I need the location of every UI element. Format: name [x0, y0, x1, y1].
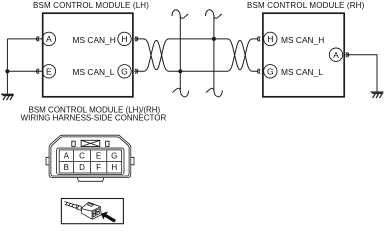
svg-text:MS CAN_H: MS CAN_H: [73, 35, 116, 45]
connector top latch box with X: [81, 140, 100, 146]
branch wire vertical 1: [179, 16, 181, 90]
connector chevrons pin G (RH): [257, 69, 260, 74]
connector left side lug: [46, 157, 49, 165]
svg-text:F: F: [96, 163, 101, 172]
connector chevrons pin A (LH): [36, 37, 39, 42]
pin H (RH): [264, 32, 277, 45]
wire MS CAN_H twisted pair (top): [134, 39, 257, 70]
break squiggle bottom of branch 1: [172, 88, 188, 97]
break squiggle bottom of branch 2: [206, 88, 222, 97]
pin H (LH): [118, 32, 131, 45]
break squiggle top of branch 2: [206, 10, 222, 19]
pin G (RH): [264, 65, 277, 78]
junction dot left ground: [5, 69, 9, 73]
ground G2 (right): [371, 92, 384, 98]
break squiggle top of branch 1: [172, 10, 188, 19]
connector pin grid: [59, 150, 121, 173]
legend cable: [64, 202, 81, 211]
branch wire vertical 2: [213, 16, 215, 90]
legend connector 3d body: [81, 202, 101, 219]
svg-text:C: C: [79, 151, 85, 160]
BSM control module (RH) box U2: [263, 13, 344, 97]
wire ground-to-A (LH): [7, 38, 42, 40]
pin G (LH): [118, 65, 131, 78]
wire ground-to-E (LH): [7, 70, 42, 72]
connector top small tab 2: [106, 141, 109, 146]
connector chevrons pin G (LH): [135, 69, 138, 74]
pin E (LH): [42, 65, 55, 78]
junction dot branch1 on CAN_L: [178, 69, 182, 73]
connector chevrons pin H (RH): [257, 37, 260, 42]
wire MS CAN_L twisted pair (bottom): [134, 40, 257, 71]
svg-text:G: G: [267, 67, 274, 77]
svg-text:MS CAN_L: MS CAN_L: [73, 67, 115, 77]
svg-text:H: H: [267, 34, 273, 44]
legend direction arrow: [101, 211, 116, 222]
svg-text:D: D: [79, 163, 85, 172]
svg-text:MS CAN_L: MS CAN_L: [281, 67, 323, 77]
connector housing outer outline: [49, 135, 131, 177]
svg-text:WIRING HARNESS-SIDE CONNECTOR: WIRING HARNESS-SIDE CONNECTOR: [21, 114, 167, 123]
junction dot branch2 on CAN_H: [212, 37, 216, 41]
svg-text:A: A: [46, 34, 52, 44]
pin A (LH): [42, 32, 55, 45]
svg-text:BSM CONTROL MODULE (RH): BSM CONTROL MODULE (RH): [247, 1, 365, 10]
svg-text:BSM CONTROL MODULE (LH): BSM CONTROL MODULE (LH): [33, 1, 149, 10]
connector chevrons pin A (RH): [346, 52, 349, 57]
BSM control module (LH) box U1: [43, 13, 133, 97]
svg-text:G: G: [121, 67, 128, 77]
legend icon box: [61, 199, 123, 224]
svg-text:E: E: [96, 151, 101, 160]
svg-text:H: H: [121, 34, 127, 44]
connector chevrons pin E (LH): [36, 69, 39, 74]
svg-text:H: H: [111, 163, 117, 172]
svg-text:A: A: [333, 50, 339, 60]
wire A (RH) to ground: [344, 55, 377, 92]
ground G1 (left): [1, 94, 14, 100]
svg-text:A: A: [64, 151, 70, 160]
wire left ground vertical: [6, 39, 8, 94]
connector pin area box: [57, 148, 124, 174]
connector housing inner outline: [51, 137, 129, 176]
connector right side lug: [131, 157, 134, 165]
svg-text:MS CAN_H: MS CAN_H: [281, 35, 324, 45]
connector bottom tab: [77, 178, 104, 182]
connector chevrons pin H (LH): [135, 37, 138, 42]
pin A (RH): [329, 48, 342, 61]
connector top small tab 1: [72, 141, 75, 146]
svg-text:G: G: [111, 151, 117, 160]
svg-text:E: E: [46, 67, 52, 77]
svg-text:B: B: [64, 163, 69, 172]
